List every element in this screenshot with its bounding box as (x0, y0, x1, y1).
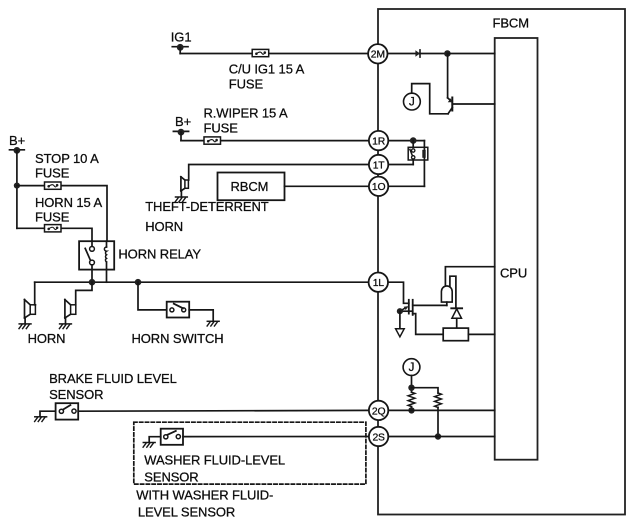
svg-text:FUSE: FUSE (35, 210, 70, 225)
svg-text:J: J (409, 97, 415, 109)
MOSFET source wire to resistor box (413, 314, 444, 335)
ground washer sensor (143, 442, 155, 444)
wire B+ down with junction (16, 150, 18, 228)
svg-text:C/U IG1 15 A: C/U IG1 15 A (229, 61, 305, 76)
wire to HORN fuse then down to relay switch (17, 228, 92, 241)
transistor Q1 (448, 54, 495, 114)
junction dot R1 on 2Q line (408, 407, 414, 413)
junction dot 2M line (444, 50, 451, 57)
RBCM box (218, 173, 285, 201)
terminal B+ upper (173, 129, 188, 141)
svg-text:CPU: CPU (500, 266, 527, 281)
horn feed wire (switch output to 1L) (35, 281, 369, 283)
svg-text:IG1: IG1 (171, 29, 192, 44)
wire to horn switch (138, 282, 167, 310)
wire brake sensor to 2Q (78, 409, 369, 412)
svg-text:FBCM: FBCM (493, 16, 529, 31)
MOSFET drain wire to thermistor bottom (413, 304, 447, 306)
svg-text:RBCM: RBCM (231, 179, 269, 194)
wire washer sensor to 2S (183, 436, 369, 438)
svg-text:BRAKE FLUID LEVEL: BRAKE FLUID LEVEL (49, 371, 177, 386)
fuse STOP 10A (45, 182, 62, 189)
junction dot left (89, 279, 96, 286)
horn speaker middle (65, 300, 76, 324)
ground left horn (19, 323, 31, 325)
svg-text:HORN: HORN (28, 331, 66, 346)
joint J top (404, 93, 421, 110)
connector 1T (369, 155, 388, 174)
MOSFET Q2 (397, 300, 413, 315)
resistor box in FBCM (443, 328, 468, 341)
horn relay K1 (79, 241, 114, 282)
horn speaker left (25, 300, 36, 324)
junction dot R2 on 2S line (435, 433, 441, 439)
wire J to transistor base (412, 84, 448, 114)
connector 2M (368, 44, 387, 63)
svg-text:B+: B+ (9, 133, 25, 148)
svg-text:FUSE: FUSE (204, 121, 239, 136)
wire to STOP fuse then down to relay coil (17, 186, 107, 242)
svg-text:LEVEL SENSOR: LEVEL SENSOR (138, 505, 235, 520)
svg-text:2M: 2M (371, 50, 385, 61)
wire washer sensor to ground (149, 437, 161, 443)
svg-text:HORN 15 A: HORN 15 A (35, 195, 102, 210)
connector 1L (369, 273, 388, 292)
terminal IG1 (172, 44, 188, 54)
wire IG1 to 2M (180, 53, 368, 55)
svg-text:1L: 1L (373, 278, 385, 289)
ground brake sensor (35, 416, 47, 418)
wire 1T to theft horn (189, 165, 370, 181)
wire resistor box to CPU (468, 333, 494, 335)
thermistor element (441, 286, 452, 306)
svg-text:HORN RELAY: HORN RELAY (118, 246, 201, 261)
joint J bottom (403, 359, 420, 376)
1L wire to MOSFET gate (388, 282, 409, 303)
fuse HORN 15A (45, 225, 62, 232)
svg-text:FUSE: FUSE (35, 165, 70, 180)
resistor R2 zigzag (435, 393, 442, 437)
svg-text:R.WIPER 15 A: R.WIPER 15 A (204, 106, 288, 121)
CPU box (495, 38, 538, 460)
wire J to junction (411, 376, 413, 393)
svg-text:B+: B+ (175, 114, 191, 129)
terminal B+ left (10, 147, 25, 154)
svg-text:1R: 1R (372, 137, 386, 148)
connector 2S (369, 427, 388, 446)
fuse C/U IG1 15A (252, 49, 269, 56)
ground theft horn (176, 196, 188, 198)
diode D2 (451, 308, 462, 328)
ground horn switch (207, 320, 219, 322)
ground middle horn (60, 323, 72, 325)
wire to middle horn (76, 282, 92, 305)
wire 2S to CPU (388, 436, 495, 438)
svg-text:SENSOR: SENSOR (49, 387, 103, 402)
horn switch (167, 302, 190, 318)
svg-text:FUSE: FUSE (229, 76, 264, 91)
wire to left horn (34, 282, 36, 305)
svg-text:HORN SWITCH: HORN SWITCH (132, 331, 224, 346)
svg-text:1T: 1T (373, 160, 386, 171)
wire junction to CPU (447, 53, 494, 55)
dashed box washer sensor (134, 422, 366, 484)
svg-text:2Q: 2Q (372, 406, 386, 417)
resistor R1 zigzag (408, 392, 415, 410)
washer fluid-level sensor switch (161, 429, 183, 445)
svg-text:WITH WASHER FLUID-: WITH WASHER FLUID- (136, 487, 273, 502)
svg-text:STOP 10 A: STOP 10 A (35, 151, 99, 166)
wire RBCM to 1O (285, 185, 370, 187)
theft-deterrent horn speaker (181, 177, 189, 197)
fuse R.WIPER 15A (204, 137, 221, 144)
svg-text:2S: 2S (372, 432, 385, 443)
connector 1O (369, 177, 388, 196)
wire CPU to thermistor top (445, 267, 494, 287)
wire horn switch to ground (189, 310, 213, 321)
svg-text:SENSOR: SENSOR (144, 470, 198, 485)
ground arrow under MOSFET (396, 311, 405, 337)
diode D1 on 2M line (387, 50, 447, 57)
wire thermistor to diode hook (450, 276, 456, 308)
svg-text:WASHER FLUID-LEVEL: WASHER FLUID-LEVEL (144, 452, 285, 467)
wire B+ to 1R (181, 140, 368, 142)
svg-text:HORN: HORN (145, 219, 183, 234)
wire junction to resistor 2 top (412, 388, 439, 393)
junction dot below J (408, 385, 414, 391)
svg-text:J: J (409, 362, 415, 374)
relay in FBCM (1R/1T/1O) (389, 137, 428, 186)
svg-text:1O: 1O (372, 182, 386, 193)
FBCM box (378, 9, 625, 515)
wire brake sensor to ground (40, 411, 56, 416)
junction dot right (135, 279, 142, 286)
wire 2Q to CPU (388, 409, 495, 411)
brake fluid level sensor switch (56, 403, 79, 419)
connector 1R (369, 131, 388, 150)
connector 2Q (369, 401, 388, 420)
